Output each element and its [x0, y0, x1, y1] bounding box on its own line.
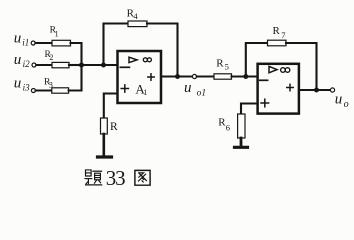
label u_i2: [14, 52, 30, 69]
label R3: [44, 77, 53, 89]
wire: [69, 66, 82, 91]
label u_o: [335, 91, 349, 110]
wire: [241, 104, 257, 115]
svg-text:R: R: [216, 58, 224, 70]
svg-text:u: u: [14, 31, 21, 47]
node summing junction: [79, 63, 84, 68]
svg-text:R: R: [110, 121, 118, 133]
label R6: [218, 117, 230, 133]
resistor R4: [128, 21, 147, 27]
caption text 33: [106, 166, 125, 190]
node A2 output junction: [314, 88, 319, 93]
op-amp A1 triangle symbol: [129, 57, 137, 62]
label R2: [45, 50, 54, 62]
resistor R6: [238, 114, 245, 138]
terminal u_o1: [192, 74, 196, 78]
svg-text:1: 1: [55, 29, 59, 38]
svg-text:i1: i1: [22, 38, 29, 48]
svg-text:i2: i2: [23, 59, 31, 69]
svg-text:u: u: [14, 75, 21, 91]
svg-text:5: 5: [225, 61, 229, 71]
terminal u_o: [330, 88, 334, 92]
svg-text:6: 6: [226, 123, 230, 133]
wire: [69, 64, 82, 66]
resistor R7: [268, 40, 287, 46]
wire: [35, 42, 52, 44]
svg-text:3: 3: [49, 81, 53, 90]
label u_i1: [14, 31, 30, 48]
wire: [71, 43, 82, 64]
wire: [147, 24, 178, 76]
svg-text:R: R: [273, 25, 281, 37]
resistor R5: [214, 74, 232, 79]
svg-text:7: 7: [281, 30, 285, 40]
input terminal u_i2: [32, 63, 36, 67]
op-amp A2 triangle symbol: [269, 66, 277, 72]
op-amp A1 plus sign (input): [121, 85, 128, 92]
node A1 output junction: [175, 74, 180, 79]
label R4: [127, 8, 139, 21]
label R: [110, 121, 118, 133]
caption character 题: [85, 170, 102, 185]
svg-text:o: o: [344, 99, 349, 110]
node feedback tap: [101, 63, 106, 68]
svg-text:o1: o1: [197, 88, 207, 98]
ground (under R): [98, 155, 112, 158]
wire: [161, 75, 192, 77]
wire: [104, 24, 129, 66]
resistor R2: [52, 62, 69, 67]
svg-text:33: 33: [106, 166, 125, 190]
wire: [104, 94, 117, 119]
wire: [246, 43, 268, 77]
input terminal u_i1: [31, 41, 35, 45]
node R7 tap: [243, 74, 248, 79]
op-amp A2: [258, 64, 299, 114]
op-amp A2 minus sign: [260, 79, 268, 81]
op-amp A2 infinity symbol: [281, 68, 290, 73]
resistor R3: [52, 88, 69, 93]
label A1: [135, 81, 147, 97]
op-amp A2 plus sign (input): [261, 99, 269, 107]
resistor R: [101, 118, 108, 134]
resistor R1: [52, 40, 71, 46]
label u_i3: [14, 75, 30, 92]
wire: [299, 89, 330, 91]
svg-text:u: u: [14, 52, 21, 68]
wire: [232, 75, 257, 77]
wire: [286, 43, 317, 89]
wire: [103, 134, 106, 156]
wire: [197, 75, 214, 77]
op-amp A2 plus sign (output): [287, 84, 293, 90]
caption character 图: [135, 170, 150, 185]
svg-text:2: 2: [49, 53, 53, 62]
label u_o1: [184, 80, 206, 98]
label R5: [216, 58, 229, 72]
wire: [82, 64, 117, 66]
op-amp A1 infinity symbol: [143, 58, 151, 62]
ground (under R6): [235, 146, 248, 149]
input terminal u_i3: [31, 89, 35, 93]
label R7: [273, 25, 286, 40]
wire: [36, 64, 52, 66]
op-amp A1 minus sign: [120, 66, 129, 68]
label R1: [50, 26, 59, 39]
op-amp A1: [118, 51, 162, 103]
wire: [240, 138, 243, 146]
svg-text:u: u: [335, 91, 343, 107]
svg-text:1: 1: [143, 88, 147, 97]
wire: [36, 89, 52, 91]
svg-text:u: u: [184, 80, 192, 96]
svg-text:i3: i3: [23, 82, 31, 92]
op-amp A1 plus sign (output): [148, 74, 154, 80]
svg-text:4: 4: [133, 11, 138, 21]
